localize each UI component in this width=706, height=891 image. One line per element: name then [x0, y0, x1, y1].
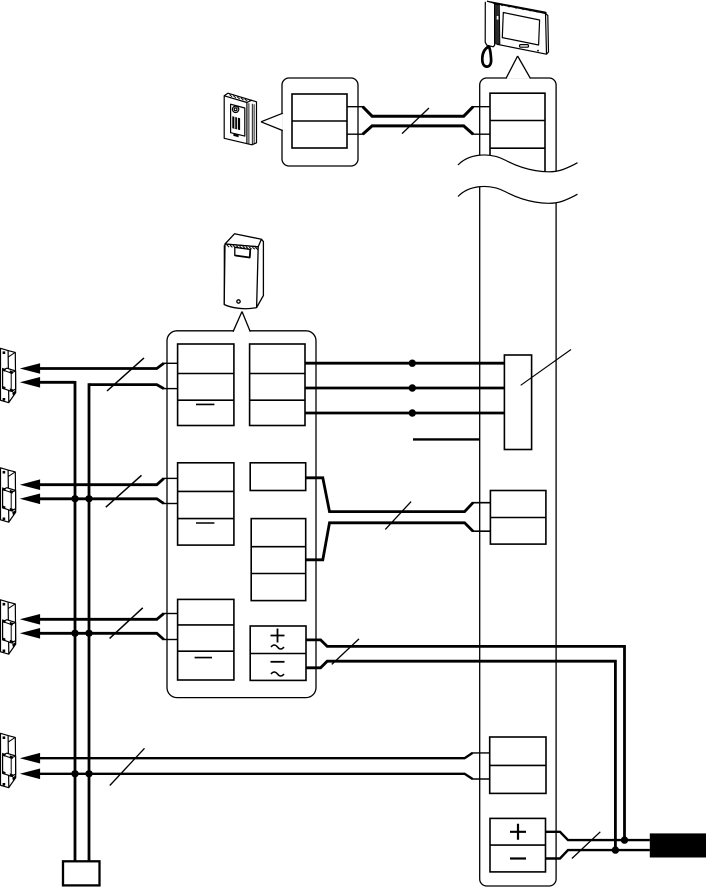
wire (lower) [38, 633, 164, 639]
call button [233, 134, 238, 138]
main control box enclosure [167, 331, 316, 698]
junction dot on wire 3 [409, 409, 416, 416]
hatch under top edge [227, 245, 258, 250]
junction dot (- net) [612, 846, 619, 853]
arrow to strike 1 (upper) [20, 363, 40, 374]
strike 4 wire pair [20, 748, 490, 785]
cable slash [402, 108, 429, 134]
wire 3: R1 to distribution block [305, 412, 504, 415]
leader line [521, 350, 571, 386]
speaker slot [520, 45, 529, 48]
hatch on top [230, 95, 248, 102]
wire: monitor - to PSU [546, 850, 650, 858]
master monitor station icon [482, 1, 548, 66]
arrow to strike 2 (upper) [20, 479, 40, 490]
cable slash [572, 832, 600, 859]
terminal block L3 [178, 599, 234, 680]
label recess [235, 247, 251, 257]
top face [225, 234, 261, 247]
inner panel [231, 104, 245, 136]
front face [224, 244, 258, 309]
door station terminal enclosure [282, 78, 358, 166]
riser junction box [63, 861, 100, 885]
wire 1: R1 to distribution block [305, 362, 504, 365]
junction dot on wire 2 [409, 384, 416, 391]
wire (lower) [38, 499, 164, 504]
riser wire 2 [88, 383, 91, 861]
door strike icon 1 [1, 348, 16, 402]
terminal block R2 [250, 463, 306, 491]
junction dot on wire 1 [409, 360, 416, 367]
wire: monitor + to PSU [546, 832, 650, 840]
break (wavy) in monitor enclosure [458, 155, 578, 203]
strike 3 wire pair [20, 608, 178, 640]
wire (+~) [306, 640, 625, 840]
cable slash [110, 608, 143, 639]
+ label [510, 824, 526, 840]
speaker grille [232, 116, 240, 130]
junction dot riser 1 [71, 495, 78, 502]
arrow to strike 4 (lower) [20, 769, 40, 780]
camera [232, 106, 238, 112]
terminal block R1 [250, 344, 305, 426]
riser wire 1 [74, 381, 77, 861]
minus label L2 [196, 522, 214, 524]
junction dot riser 2 [85, 630, 92, 637]
arrow to strike 4 (upper) [20, 753, 40, 764]
arrow to strike 3 (upper) [20, 614, 40, 625]
wire (upper) [347, 106, 364, 108]
arrow to strike 2 (lower) [20, 494, 40, 505]
cable slash [106, 475, 142, 507]
junction dot riser 2 [85, 495, 92, 502]
wire (upper) [38, 363, 164, 368]
monitor lower terminal block [490, 737, 546, 793]
wire (lower) [347, 133, 364, 135]
wire (upper) [38, 478, 164, 484]
power supply (black box) [650, 833, 706, 857]
top edge hatch [492, 2, 545, 14]
handset [485, 2, 494, 47]
cable slash [332, 639, 359, 665]
junction dot riser 1 [71, 630, 78, 637]
minus label L3 [195, 657, 212, 659]
callout pointer to door station [261, 113, 283, 130]
monitor mid terminal block [490, 491, 546, 545]
cable slash [385, 502, 411, 530]
+~ label [271, 629, 285, 650]
wire pair: door station to monitor [347, 107, 490, 135]
screen [502, 13, 539, 46]
monitor distribution terminal (narrow block) [504, 355, 531, 450]
strike 1 wire pair [20, 358, 178, 391]
wire (lower) [306, 523, 473, 560]
wire 4 stub [413, 438, 480, 440]
control unit icon [224, 234, 263, 309]
door station terminal block [292, 94, 347, 148]
wire 2: R1 to distribution block [305, 387, 504, 390]
- label [510, 857, 526, 859]
callout pointer to control unit [233, 312, 250, 332]
terminal block L1 [178, 344, 234, 426]
wire pair: R2/R3 to monitor mid block [306, 478, 491, 560]
wire pair: R4 to power supply [306, 639, 625, 850]
wire (upper) [38, 614, 164, 620]
door strike icon 4 [1, 733, 16, 787]
junction dot riser 2 [85, 770, 92, 777]
terminal block R4 (+~ / -~) [250, 626, 306, 680]
arrow to strike 3 (lower) [20, 628, 40, 639]
right face [257, 239, 264, 307]
callout pointer to monitor [506, 56, 531, 79]
wire (upper) [306, 478, 473, 512]
screw [237, 300, 240, 303]
junction dot (+ net) [621, 836, 628, 843]
door station icon [224, 93, 256, 145]
door strike icon 2 [1, 468, 16, 522]
wire (lower, from L1 to riser 2) [89, 385, 164, 389]
wire (-~) [306, 661, 615, 850]
junction dot riser 1 [71, 770, 78, 777]
wire (lower, to riser 1) [38, 381, 75, 384]
cable slash [110, 748, 145, 785]
monitor terminal block (top) [490, 93, 545, 178]
monitor rounded enclosure [480, 78, 556, 886]
minus label L1 [196, 403, 214, 405]
handset cord coil [482, 46, 491, 66]
small dot [537, 50, 539, 52]
arrow to strike 1 (lower) [20, 377, 40, 388]
strike 2 wire pair [20, 475, 178, 507]
cable slash [107, 358, 144, 391]
wire (lower) [38, 774, 473, 779]
door strike icon 3 [1, 600, 16, 654]
terminal block R3 [251, 519, 306, 601]
monitor +/- power block [490, 818, 546, 872]
terminal block L2 [178, 463, 234, 545]
wire (upper) [38, 753, 473, 758]
